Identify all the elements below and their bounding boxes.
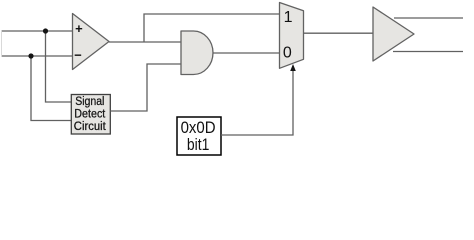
node A (junction dot on IN+) [43, 28, 48, 33]
wire from node A down to Signal Detect input 1 [46, 31, 72, 102]
wire buffer output + [394, 17, 463, 19]
svg-text:1: 1 [284, 9, 293, 26]
svg-text:bit1: bit1 [187, 135, 210, 154]
svg-text:−: − [74, 48, 82, 63]
AND gate [181, 31, 213, 75]
Signal Detect Circuit box [71, 94, 110, 134]
buffer U2 (output driver) [373, 7, 414, 61]
op-amp U1 (comparator) [73, 14, 110, 70]
wire AND output to mux input 0 [213, 52, 280, 54]
wire buffer output - [393, 51, 463, 53]
node B (junction dot on IN-) [28, 53, 33, 58]
wire op-amp output to AND gate input 1 [109, 41, 181, 43]
svg-text:Circuit: Circuit [74, 119, 107, 133]
wire IN+ (top input) [2, 30, 73, 32]
wire select: 0x0D bit1 to mux select [221, 70, 293, 135]
wire from node B down to Signal Detect input 2 [31, 56, 71, 121]
svg-text:+: + [75, 21, 83, 36]
svg-text:0: 0 [283, 44, 292, 61]
wire Signal Detect output to AND gate input 2 [110, 64, 181, 111]
wire IN- (bottom input) [2, 55, 73, 57]
mux (2:1 selector) [280, 3, 304, 69]
left image-edge artifact [1, 30, 3, 57]
arrowhead into mux select [290, 64, 296, 71]
wire branch up to mux input 1 (top rail) [144, 14, 280, 42]
wire mux output to buffer input [304, 32, 374, 34]
0x0D bit1 register box [177, 117, 221, 155]
